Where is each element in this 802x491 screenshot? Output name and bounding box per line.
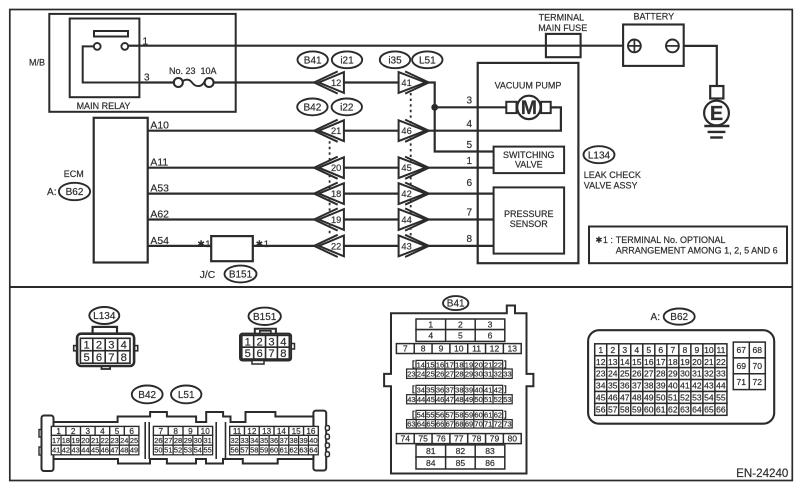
switching valve box (494, 147, 564, 174)
wire from connector 41 down to pins 3 and 5 (428, 83, 493, 152)
connector oval B41 (298, 51, 328, 68)
svg-text:64: 64 (417, 420, 425, 429)
svg-text:1: 1 (466, 156, 472, 167)
svg-text:MAIN RELAY: MAIN RELAY (77, 101, 131, 111)
label *1 left (198, 240, 204, 247)
svg-text:i21: i21 (340, 55, 354, 66)
svg-text:13: 13 (262, 427, 272, 436)
wire pin1 main relay to battery (139, 45, 623, 47)
svg-text:11: 11 (716, 345, 725, 355)
svg-text:69: 69 (737, 361, 747, 371)
svg-text:36: 36 (620, 381, 630, 391)
svg-text:48: 48 (120, 446, 128, 455)
svg-text:4: 4 (428, 331, 433, 341)
svg-text:67: 67 (737, 345, 747, 355)
svg-text:TERMINAL: TERMINAL (539, 13, 585, 23)
svg-text:7: 7 (466, 208, 472, 219)
wire pin3 main relay to fuse and connector 12 (139, 81, 173, 83)
wire A54 / pin8 to pressure sensor (148, 245, 315, 247)
svg-text:21: 21 (484, 360, 492, 369)
svg-text:J/C: J/C (200, 270, 216, 281)
svg-text:44: 44 (417, 395, 425, 404)
svg-text:65: 65 (426, 420, 434, 429)
svg-text:25: 25 (130, 436, 138, 445)
svg-text:61: 61 (280, 446, 288, 455)
svg-text:46: 46 (436, 395, 444, 404)
svg-text:EN-24240: EN-24240 (736, 467, 788, 480)
svg-text:23: 23 (407, 369, 415, 378)
svg-text:No. 23 10A: No. 23 10A (169, 66, 217, 76)
connector pinout B42/L51 grids (51, 426, 139, 435)
svg-text:72: 72 (753, 377, 763, 387)
svg-text:86: 86 (485, 458, 495, 468)
relay coil (94, 31, 128, 37)
svg-text:64: 64 (309, 446, 317, 455)
svg-text:16: 16 (436, 360, 444, 369)
svg-text:7: 7 (108, 352, 114, 364)
connector oval i35 (380, 51, 410, 68)
svg-text:63: 63 (299, 446, 307, 455)
fuse No. 23 10A (169, 66, 217, 87)
svg-text:16: 16 (306, 427, 316, 436)
svg-text:M/B: M/B (29, 57, 45, 67)
svg-text:2: 2 (458, 319, 463, 329)
connector pinout B62 grids (595, 344, 727, 356)
svg-text:6: 6 (129, 427, 134, 436)
svg-text:L51: L51 (419, 55, 436, 66)
svg-text:10: 10 (704, 345, 714, 355)
svg-text:22: 22 (101, 436, 109, 445)
svg-text:22: 22 (716, 357, 726, 367)
svg-text:B41: B41 (304, 55, 322, 66)
svg-text:7: 7 (670, 345, 675, 355)
svg-text:3: 3 (108, 340, 114, 352)
svg-text:17: 17 (52, 436, 60, 445)
svg-text:57: 57 (608, 404, 618, 414)
svg-text:38: 38 (455, 386, 463, 395)
svg-text:63: 63 (680, 404, 690, 414)
svg-text:54: 54 (417, 411, 425, 420)
svg-text:47: 47 (446, 395, 454, 404)
svg-text:53: 53 (692, 393, 702, 403)
svg-text:72: 72 (494, 420, 502, 429)
svg-text:44: 44 (401, 215, 411, 225)
svg-text:35: 35 (426, 386, 434, 395)
pass-through connector 44 (399, 208, 429, 230)
relay contact right (121, 43, 128, 50)
svg-text:A11: A11 (150, 158, 168, 169)
svg-text:41: 41 (52, 446, 60, 455)
svg-text:75: 75 (418, 434, 428, 444)
svg-text:LEAK CHECK: LEAK CHECK (584, 170, 641, 180)
svg-text:A54: A54 (150, 236, 169, 247)
svg-text:24: 24 (120, 436, 128, 445)
svg-text:83: 83 (485, 446, 495, 456)
wire A53 / pin6 to pressure sensor (148, 193, 315, 195)
svg-text:27: 27 (164, 436, 172, 445)
svg-text:VACUUM PUMP: VACUUM PUMP (495, 80, 562, 90)
svg-text:58: 58 (620, 404, 630, 414)
svg-text:M: M (521, 97, 537, 119)
svg-text:27: 27 (644, 369, 654, 379)
wire battery to ground (684, 46, 717, 86)
svg-text:34: 34 (417, 386, 425, 395)
connector oval L134 leak check (584, 146, 615, 163)
connector oval i21 (332, 51, 362, 68)
svg-text:15: 15 (632, 357, 642, 367)
svg-text:5: 5 (458, 331, 463, 341)
svg-text:44: 44 (716, 381, 726, 391)
svg-text:24: 24 (417, 369, 425, 378)
svg-text:63: 63 (407, 420, 415, 429)
svg-text:70: 70 (474, 420, 482, 429)
svg-text:7: 7 (159, 427, 164, 436)
svg-text:30: 30 (474, 369, 482, 378)
ECM box (94, 118, 148, 263)
svg-text:47: 47 (110, 446, 118, 455)
svg-text:8: 8 (280, 348, 286, 360)
svg-text:3: 3 (466, 96, 472, 107)
svg-text:40: 40 (309, 436, 317, 445)
svg-text:2: 2 (96, 340, 102, 352)
svg-text:78: 78 (472, 434, 482, 444)
dotted line right connector column (410, 93, 412, 236)
connector oval i22 (332, 99, 362, 116)
svg-text:37: 37 (446, 386, 454, 395)
svg-text:51: 51 (668, 393, 678, 403)
svg-text:5: 5 (245, 348, 251, 360)
svg-text:19: 19 (331, 215, 341, 225)
svg-text:11: 11 (472, 344, 481, 354)
svg-text:42: 42 (692, 381, 702, 391)
svg-text:1: 1 (205, 239, 210, 250)
svg-text:42: 42 (494, 386, 502, 395)
svg-text:21: 21 (704, 357, 714, 367)
svg-text:19: 19 (465, 360, 473, 369)
svg-text:7: 7 (403, 344, 408, 354)
svg-text:38: 38 (644, 381, 654, 391)
svg-text:37: 37 (280, 436, 288, 445)
svg-text:B151: B151 (253, 312, 277, 323)
svg-text:21: 21 (331, 126, 341, 136)
svg-text:31: 31 (692, 369, 702, 379)
svg-text:27: 27 (446, 369, 454, 378)
svg-text:L134: L134 (93, 311, 116, 322)
svg-text:74: 74 (401, 434, 411, 444)
svg-text:2: 2 (610, 345, 615, 355)
svg-text:7: 7 (268, 348, 274, 360)
svg-text:5: 5 (466, 140, 472, 151)
svg-text:14: 14 (620, 357, 630, 367)
svg-text:30: 30 (194, 436, 202, 445)
svg-text:i22: i22 (340, 103, 354, 114)
svg-text:8: 8 (173, 427, 178, 436)
svg-text:56: 56 (596, 404, 606, 414)
svg-text:43: 43 (71, 446, 79, 455)
svg-text:70: 70 (753, 361, 763, 371)
svg-text:33: 33 (716, 369, 726, 379)
svg-text:E: E (710, 103, 723, 125)
svg-text:15: 15 (292, 427, 302, 436)
svg-text:45: 45 (426, 395, 434, 404)
svg-text:9: 9 (439, 344, 444, 354)
svg-text:VALVE: VALVE (515, 160, 543, 170)
svg-text:26: 26 (436, 369, 444, 378)
svg-text:ECM: ECM (64, 169, 84, 179)
svg-text:1: 1 (56, 427, 61, 436)
svg-text:4: 4 (121, 340, 127, 352)
svg-text:26: 26 (154, 436, 162, 445)
note box *1 terminal optional (589, 227, 787, 264)
svg-text:ARRANGEMENT AMONG 1, 2, 5 AND: ARRANGEMENT AMONG 1, 2, 5 AND 6 (616, 245, 778, 255)
svg-text:33: 33 (503, 369, 511, 378)
svg-text:1: 1 (428, 319, 433, 329)
svg-text:79: 79 (490, 434, 500, 444)
svg-text:43: 43 (401, 241, 411, 251)
connector pinout L134 (74, 307, 138, 369)
pressure sensor box (494, 187, 564, 253)
svg-text:11: 11 (233, 427, 242, 436)
svg-text:59: 59 (632, 404, 642, 414)
svg-text:55: 55 (204, 446, 212, 455)
svg-text:6: 6 (658, 345, 663, 355)
svg-text:30: 30 (680, 369, 690, 379)
svg-text:A62: A62 (150, 210, 169, 221)
svg-text:6: 6 (256, 348, 262, 360)
svg-text:18: 18 (455, 360, 463, 369)
svg-text:40: 40 (474, 386, 482, 395)
svg-text:40: 40 (668, 381, 678, 391)
svg-text:25: 25 (620, 369, 630, 379)
svg-text:68: 68 (455, 420, 463, 429)
svg-text:82: 82 (456, 446, 466, 456)
svg-text:67: 67 (446, 420, 454, 429)
svg-text:B151: B151 (229, 270, 253, 281)
svg-text:8: 8 (121, 352, 127, 364)
svg-text:19: 19 (680, 357, 690, 367)
svg-text:5: 5 (83, 352, 89, 364)
svg-text:71: 71 (484, 420, 492, 429)
svg-text:12: 12 (247, 427, 257, 436)
svg-text:12: 12 (596, 357, 606, 367)
svg-text:34: 34 (250, 436, 258, 445)
pass-through connector 21 (314, 120, 344, 142)
svg-text:35: 35 (608, 381, 618, 391)
svg-text:39: 39 (465, 386, 473, 395)
svg-text:34: 34 (596, 381, 606, 391)
wire A10 / pin4 (148, 130, 315, 132)
svg-text:32: 32 (230, 436, 238, 445)
svg-text:15: 15 (426, 360, 434, 369)
svg-text:6: 6 (466, 178, 472, 189)
svg-text:3: 3 (488, 319, 493, 329)
svg-text:B41: B41 (447, 299, 465, 310)
svg-text:50: 50 (656, 393, 666, 403)
svg-text:18: 18 (331, 189, 341, 199)
svg-text:BATTERY: BATTERY (633, 12, 674, 22)
svg-text:69: 69 (465, 420, 473, 429)
svg-text:29: 29 (668, 369, 678, 379)
svg-text:28: 28 (455, 369, 463, 378)
svg-text:36: 36 (436, 386, 444, 395)
svg-text:16: 16 (644, 357, 654, 367)
svg-text:46: 46 (101, 446, 109, 455)
svg-text:25: 25 (426, 369, 434, 378)
svg-text:65: 65 (704, 404, 714, 414)
pass-through connector 20 (314, 157, 344, 179)
svg-text:32: 32 (704, 369, 714, 379)
svg-text:84: 84 (426, 458, 436, 468)
svg-text:52: 52 (494, 395, 502, 404)
svg-text:55: 55 (716, 393, 726, 403)
svg-text:42: 42 (401, 189, 411, 199)
svg-text:PRESSURE: PRESSURE (504, 209, 554, 219)
svg-text:22: 22 (494, 360, 502, 369)
svg-text:9: 9 (694, 345, 699, 355)
svg-text:60: 60 (270, 446, 278, 455)
wire between connectors 12 and 41 (344, 81, 400, 83)
svg-text:SWITCHING: SWITCHING (503, 150, 555, 160)
relay MAIN RELAY (70, 19, 140, 98)
svg-text:41: 41 (680, 381, 690, 391)
svg-text:B62: B62 (670, 312, 688, 323)
label *1 right (257, 240, 263, 247)
pass-through connector 45 (399, 157, 429, 179)
svg-text:59: 59 (260, 446, 268, 455)
wire A11 / pin1 to switching valve (148, 167, 315, 169)
battery (623, 12, 684, 66)
svg-text:46: 46 (608, 393, 618, 403)
svg-text:35: 35 (260, 436, 268, 445)
svg-text:2: 2 (71, 427, 76, 436)
svg-text:A:: A: (651, 312, 660, 323)
svg-text:44: 44 (81, 446, 89, 455)
pass-through connector 22 (314, 235, 344, 257)
svg-text:18: 18 (668, 357, 678, 367)
svg-text:A:: A: (47, 187, 56, 198)
relay contact left (94, 43, 101, 50)
svg-text:10: 10 (454, 344, 464, 354)
pass-through connector 41 (399, 71, 429, 93)
svg-text:55: 55 (426, 411, 434, 420)
svg-text:48: 48 (455, 395, 463, 404)
svg-text:10: 10 (201, 427, 211, 436)
svg-text:49: 49 (644, 393, 654, 403)
connector oval B42 bottom (132, 386, 163, 404)
svg-text:62: 62 (494, 411, 502, 420)
leak check valve assy box (478, 63, 579, 263)
svg-text:51: 51 (484, 395, 492, 404)
pass-through connector 12 (314, 71, 344, 93)
svg-text:52: 52 (680, 393, 690, 403)
svg-text:VALVE ASSY: VALVE ASSY (584, 180, 638, 190)
svg-text:A10: A10 (150, 121, 169, 132)
pass-through connector 43 (399, 235, 429, 257)
svg-text:18: 18 (62, 436, 70, 445)
svg-text:4: 4 (100, 427, 105, 436)
svg-text:43: 43 (407, 395, 415, 404)
svg-text:8: 8 (421, 344, 426, 354)
pass-through connector 46 (399, 120, 429, 142)
svg-text:52: 52 (174, 446, 182, 455)
svg-text:81: 81 (426, 446, 436, 456)
connector oval L51 (412, 51, 442, 68)
pass-through connector 19 (314, 208, 344, 230)
svg-text:53: 53 (184, 446, 192, 455)
svg-text:13: 13 (508, 344, 518, 354)
svg-text:20: 20 (474, 360, 482, 369)
svg-text:3: 3 (86, 427, 91, 436)
junction J/C box (211, 236, 253, 261)
svg-text:17: 17 (446, 360, 454, 369)
svg-text:66: 66 (716, 404, 726, 414)
dotted line left connector column (329, 141, 331, 235)
svg-text:6: 6 (488, 331, 493, 341)
connector oval L51 bottom (171, 386, 201, 404)
svg-text:A53: A53 (150, 184, 169, 195)
svg-text:60: 60 (644, 404, 654, 414)
fuse box M/B (49, 14, 235, 112)
svg-text:41: 41 (484, 386, 492, 395)
svg-text:4: 4 (466, 119, 472, 130)
svg-text:61: 61 (656, 404, 666, 414)
svg-text:62: 62 (290, 446, 298, 455)
connector oval B42 (297, 99, 327, 116)
svg-text:29: 29 (465, 369, 473, 378)
svg-text:31: 31 (204, 436, 212, 445)
section divider (10, 286, 793, 288)
wire pin3 to vacuum pump motor (435, 106, 507, 108)
svg-text:42: 42 (62, 446, 70, 455)
svg-text:21: 21 (91, 436, 99, 445)
svg-text:58: 58 (455, 411, 463, 420)
svg-text:1: 1 (143, 37, 149, 48)
svg-text:85: 85 (456, 458, 466, 468)
svg-text:48: 48 (632, 393, 642, 403)
svg-text:4: 4 (634, 345, 639, 355)
svg-text:9: 9 (188, 427, 193, 436)
svg-text:45: 45 (91, 446, 99, 455)
svg-text:80: 80 (508, 434, 518, 444)
svg-text:56: 56 (230, 446, 238, 455)
svg-text:B62: B62 (66, 187, 84, 198)
svg-text:B42: B42 (138, 390, 156, 401)
svg-text:36: 36 (270, 436, 278, 445)
bracket marks B41 rows (413, 361, 415, 368)
svg-text:45: 45 (596, 393, 606, 403)
svg-text:58: 58 (250, 446, 258, 455)
svg-text:5: 5 (646, 345, 651, 355)
svg-text:50: 50 (154, 446, 162, 455)
svg-text:12: 12 (490, 344, 500, 354)
svg-text:37: 37 (632, 381, 642, 391)
svg-text:17: 17 (656, 357, 666, 367)
connector pinout B41 (384, 296, 533, 473)
svg-text:20: 20 (692, 357, 702, 367)
svg-text:28: 28 (174, 436, 182, 445)
svg-text:33: 33 (240, 436, 248, 445)
svg-text:MAIN FUSE: MAIN FUSE (538, 23, 587, 33)
svg-text:19: 19 (71, 436, 79, 445)
svg-text:28: 28 (656, 369, 666, 379)
svg-text:L134: L134 (588, 150, 611, 161)
svg-text:3: 3 (622, 345, 627, 355)
svg-text:3: 3 (144, 73, 150, 84)
svg-text:57: 57 (240, 446, 248, 455)
terminal main fuse box (546, 34, 581, 57)
svg-text:1: 1 (598, 345, 603, 355)
svg-text:43: 43 (704, 381, 714, 391)
